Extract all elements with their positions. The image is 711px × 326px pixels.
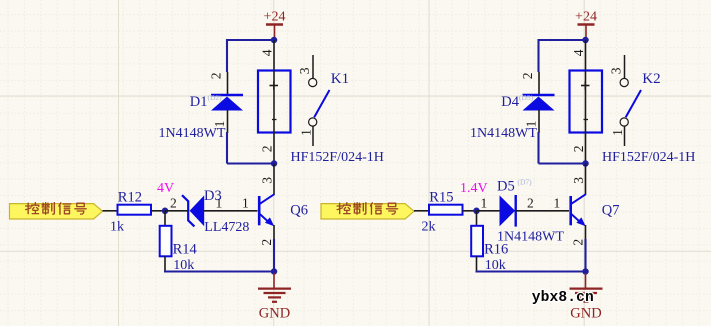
svg-text:GND: GND bbox=[570, 305, 601, 321]
resistor R16 bbox=[471, 226, 483, 256]
diode D1 pin 1 (anode lead) bbox=[227, 110, 229, 133]
coil - mark bbox=[584, 119, 589, 121]
relay K1 contact moving terminal bbox=[309, 118, 317, 126]
svg-text:R16: R16 bbox=[484, 241, 508, 257]
wire emitter down to ground rail bbox=[273, 239, 275, 272]
junction +24 node channel 2 bbox=[582, 37, 589, 44]
wire to collector node bbox=[539, 162, 586, 164]
relay K2 contact pin 3 lead bbox=[624, 55, 626, 78]
svg-text:2: 2 bbox=[527, 195, 534, 210]
diode D4 pin 2 (cathode lead) bbox=[538, 72, 540, 95]
svg-text:(D7): (D7) bbox=[518, 177, 533, 186]
svg-text:+24: +24 bbox=[264, 10, 286, 25]
svg-text:D1: D1 bbox=[190, 94, 208, 110]
coil + mark bbox=[270, 85, 279, 87]
resistor right lead bbox=[151, 210, 162, 212]
svg-text:2: 2 bbox=[260, 146, 275, 153]
svg-text:1N4148WT: 1N4148WT bbox=[470, 126, 537, 141]
svg-text:HF152F/024-1H: HF152F/024-1H bbox=[291, 150, 384, 165]
transistor Q7 emitter pin 2 lead bbox=[585, 225, 587, 240]
svg-text:1.4V: 1.4V bbox=[460, 181, 488, 196]
svg-text:+24: +24 bbox=[575, 10, 597, 25]
relay K2 coil pin 2 lead bbox=[585, 133, 587, 164]
svg-text:D4: D4 bbox=[501, 94, 519, 110]
svg-text:D3: D3 bbox=[204, 188, 222, 204]
wire down to flyback diode bbox=[537, 39, 539, 72]
relay K2 contact fixed terminal bbox=[620, 78, 628, 86]
coil - mark bbox=[272, 119, 277, 121]
coil + mark bbox=[581, 85, 590, 87]
port 控制信号 (control signal) channel 1 bbox=[10, 204, 103, 219]
svg-text:2: 2 bbox=[208, 73, 223, 80]
svg-text:2: 2 bbox=[170, 195, 177, 210]
relay K1 contact fixed terminal bbox=[309, 78, 317, 86]
relay K2 contact moving terminal bbox=[620, 118, 628, 126]
svg-text:1: 1 bbox=[298, 129, 313, 136]
svg-text:K1: K1 bbox=[331, 71, 349, 87]
svg-text:Q7: Q7 bbox=[602, 202, 620, 218]
svg-text:D5: D5 bbox=[497, 178, 515, 194]
relay K1 coil pin 4 lead bbox=[273, 40, 275, 71]
ground rail wire bbox=[164, 270, 274, 272]
svg-text:LL4728: LL4728 bbox=[204, 220, 249, 235]
svg-text:R12: R12 bbox=[118, 189, 142, 205]
relay K1 contact pin 3 lead bbox=[312, 55, 314, 78]
junction ground node channel 1 bbox=[271, 268, 278, 275]
wire top horizontal bbox=[227, 39, 274, 41]
svg-text:3: 3 bbox=[571, 177, 586, 184]
relay K1 contact blade bbox=[314, 90, 329, 117]
svg-text:2: 2 bbox=[259, 239, 274, 246]
zener diode D3 bbox=[165, 210, 188, 212]
svg-text:1: 1 bbox=[610, 129, 625, 136]
resistor R16 top lead bbox=[476, 211, 478, 226]
junction +24 node channel 1 bbox=[271, 37, 278, 44]
resistor R14 top lead bbox=[164, 211, 166, 226]
relay K1 contact pin 1 lead bbox=[312, 126, 314, 146]
svg-text:(D5): (D5) bbox=[519, 93, 534, 102]
diode D1 symbol bbox=[211, 94, 243, 97]
svg-text:1: 1 bbox=[481, 195, 488, 210]
transistor Q6 collector pin 3 lead bbox=[273, 164, 275, 196]
svg-text:R15: R15 bbox=[429, 189, 453, 205]
svg-text:4: 4 bbox=[571, 49, 586, 56]
diode D1 pin 2 (cathode lead) bbox=[227, 72, 229, 95]
svg-text:HF152F/024-1H: HF152F/024-1H bbox=[602, 150, 695, 165]
resistor right lead bbox=[463, 210, 474, 212]
transistor Q6 emitter pin 2 lead bbox=[273, 225, 275, 240]
svg-text:K2: K2 bbox=[642, 71, 660, 87]
junction collector node channel 1 bbox=[271, 160, 278, 167]
wire emitter down to ground rail bbox=[584, 239, 586, 272]
resistor R14 bottom lead bbox=[164, 256, 166, 271]
svg-text:1: 1 bbox=[242, 195, 249, 210]
svg-text:1: 1 bbox=[554, 195, 561, 210]
relay K1 coil pin 2 lead bbox=[273, 133, 275, 164]
junction base node channel 1 bbox=[162, 208, 169, 215]
svg-text:R14: R14 bbox=[173, 241, 198, 257]
svg-text:4: 4 bbox=[260, 49, 275, 56]
junction base node channel 2 bbox=[473, 208, 480, 215]
ground GND (channel 1) bbox=[273, 273, 275, 288]
relay K2 coil pin 4 lead bbox=[585, 40, 587, 71]
svg-text:2: 2 bbox=[571, 146, 586, 153]
transistor Q7 (NPN) bbox=[569, 196, 572, 225]
wire diode to base bbox=[204, 210, 258, 212]
wire from flyback diode down bbox=[537, 132, 539, 164]
junction collector node channel 2 bbox=[582, 160, 589, 167]
svg-text:ybx8.cn: ybx8.cn bbox=[532, 290, 594, 306]
svg-text:4V: 4V bbox=[157, 181, 174, 196]
wire from flyback diode down bbox=[226, 132, 228, 164]
diode D4 pin 1 (anode lead) bbox=[538, 110, 540, 133]
svg-text:(D2): (D2) bbox=[208, 93, 223, 102]
wire to collector node bbox=[227, 162, 274, 164]
resistor R14 bbox=[160, 226, 172, 256]
svg-text:3: 3 bbox=[297, 67, 312, 74]
ground rail wire bbox=[476, 270, 586, 272]
wire port to series resistor bbox=[414, 210, 429, 212]
relay K2 contact blade bbox=[626, 90, 641, 117]
transistor Q7 collector pin 3 lead bbox=[585, 164, 587, 196]
svg-text:3: 3 bbox=[608, 67, 623, 74]
junction ground node channel 2 bbox=[582, 268, 589, 275]
svg-text:2: 2 bbox=[520, 73, 535, 80]
wire diode to base bbox=[516, 210, 570, 212]
svg-text:GND: GND bbox=[259, 305, 290, 321]
resistor R12 bbox=[118, 205, 152, 215]
svg-text:3: 3 bbox=[259, 177, 274, 184]
resistor R15 bbox=[429, 205, 463, 215]
svg-text:2: 2 bbox=[571, 239, 586, 246]
diode D5 bbox=[477, 210, 500, 212]
svg-text:2k: 2k bbox=[422, 220, 436, 235]
wire top horizontal bbox=[539, 39, 586, 41]
wire down to flyback diode bbox=[226, 39, 228, 72]
diode D4 symbol bbox=[523, 94, 555, 97]
resistor R16 bottom lead bbox=[476, 256, 478, 271]
relay K2 coil box bbox=[570, 71, 603, 133]
transistor Q6 (NPN) bbox=[258, 196, 261, 225]
relay K2 contact pin 1 lead bbox=[624, 126, 626, 146]
svg-text:1k: 1k bbox=[110, 220, 124, 235]
ground GND (channel 2) bbox=[585, 273, 587, 288]
svg-text:1N4148WT: 1N4148WT bbox=[159, 126, 226, 141]
svg-text:Q6: Q6 bbox=[290, 202, 308, 218]
relay K1 coil box bbox=[258, 71, 291, 133]
port 控制信号 (control signal) channel 2 bbox=[321, 204, 414, 219]
wire port to series resistor bbox=[103, 210, 118, 212]
